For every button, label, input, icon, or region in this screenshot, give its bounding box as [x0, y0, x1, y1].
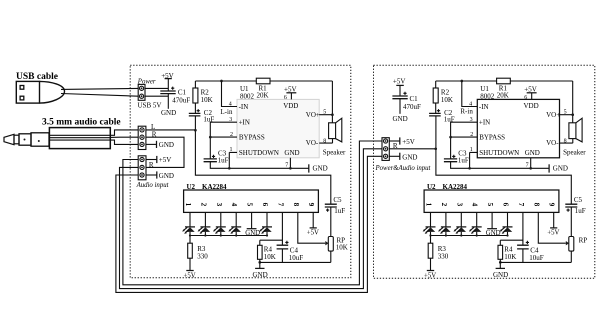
svg-text:470uF: 470uF — [403, 103, 421, 111]
svg-text:R-in: R-in — [460, 107, 473, 115]
svg-text:USB cable: USB cable — [16, 72, 58, 82]
svg-text:+5V: +5V — [402, 138, 415, 146]
svg-text:R: R — [149, 161, 154, 169]
svg-text:GND: GND — [393, 115, 408, 123]
svg-text:C1: C1 — [178, 89, 187, 97]
svg-text:Audio input: Audio input — [136, 182, 170, 189]
svg-text:10K: 10K — [336, 243, 348, 251]
svg-text:GND: GND — [159, 141, 174, 149]
svg-text:3.5 mm audio cable: 3.5 mm audio cable — [42, 118, 121, 128]
svg-text:RP: RP — [579, 236, 588, 244]
svg-text:+5V: +5V — [393, 78, 406, 86]
svg-text:GND: GND — [402, 153, 417, 161]
svg-text:L-in: L-in — [220, 108, 233, 116]
svg-text:Power&Audio input: Power&Audio input — [375, 165, 432, 172]
svg-text:GND: GND — [159, 172, 174, 180]
svg-text:GND: GND — [161, 109, 176, 117]
svg-text:470uF: 470uF — [172, 96, 190, 104]
svg-text:USB 5V: USB 5V — [138, 102, 162, 110]
svg-text:+5V: +5V — [159, 156, 172, 164]
